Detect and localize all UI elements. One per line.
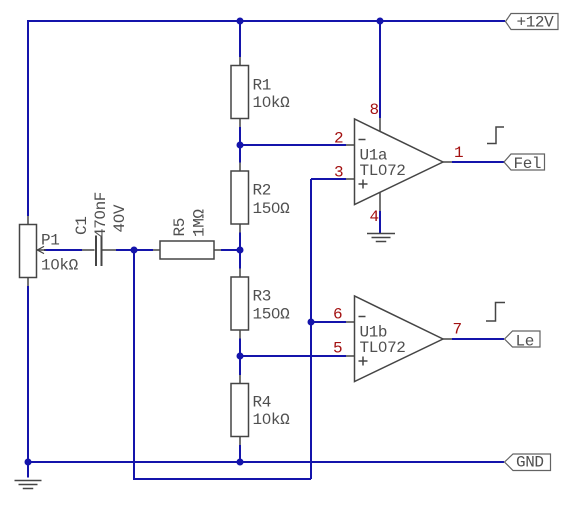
junction node VCC U1a pin8 (377, 18, 384, 25)
junction node R2 R3 R5 (237, 247, 244, 254)
pulse icon Le (486, 303, 505, 322)
wire node to R5 (134, 249, 153, 251)
wire R2 to R3 (239, 233, 241, 269)
junction node VCC R1 (237, 18, 244, 25)
resistor R1 (231, 57, 249, 127)
svg-text:10kΩ: 10kΩ (41, 257, 79, 275)
wire pin3 net vertical (310, 179, 312, 479)
svg-text:R5: R5 (171, 218, 189, 236)
svg-text:Fel: Fel (514, 155, 542, 173)
value 10kOhm R1 (253, 94, 291, 112)
resistor R5 (153, 241, 221, 259)
svg-text:P1: P1 (41, 232, 59, 250)
resistor R2 (231, 163, 249, 233)
junction node pin6 (308, 319, 315, 326)
op-amp U1a (346, 118, 452, 211)
value 40V rotated (111, 204, 129, 232)
svg-text:R2: R2 (253, 182, 271, 200)
value 150Ohm R3 (253, 306, 291, 324)
wire C1 to node (116, 249, 134, 251)
wire bottom GND rail (28, 461, 504, 463)
svg-text:2: 2 (334, 130, 343, 148)
wire U1a pin3 horizontal (311, 178, 346, 180)
pulse icon Fel (487, 127, 504, 144)
resistor R4 (231, 375, 249, 445)
svg-text:6: 6 (333, 306, 342, 324)
svg-text:R1: R1 (253, 77, 271, 95)
value 150Ohm R2 (253, 200, 291, 218)
svg-text:4: 4 (370, 208, 379, 226)
value 10kOhm P1 (41, 257, 79, 275)
svg-text:3: 3 (334, 164, 343, 182)
svg-text:1: 1 (454, 144, 463, 162)
svg-text:10kΩ: 10kΩ (253, 411, 291, 429)
wire node to U1b pin6 (311, 321, 346, 323)
svg-text:Le: Le (516, 333, 534, 351)
wire R1 to R2 (239, 127, 241, 163)
wire node R1R2 to U1a pin2 (240, 144, 346, 146)
wire U1a output to Fel tag (452, 161, 504, 163)
wire R3 to R4 (239, 339, 241, 376)
net label Fel (504, 154, 545, 173)
svg-text:5: 5 (333, 340, 342, 358)
svg-text:10kΩ: 10kΩ (253, 94, 291, 112)
resistor R3 (231, 269, 249, 339)
svg-text:C1: C1 (73, 217, 91, 235)
value 470nF rotated (92, 192, 110, 238)
wire VCC to U1a pin8 (379, 21, 381, 118)
wire P1 gnd stub (27, 462, 29, 478)
power tag +12V (506, 14, 559, 32)
svg-text:1MΩ: 1MΩ (191, 209, 209, 237)
wire bottom loop to C1 node (134, 250, 311, 479)
wire ladder top to R1 (239, 21, 241, 57)
wire U1a pin4 to ground (379, 211, 381, 234)
svg-text:R4: R4 (253, 394, 271, 412)
junction node R3 R4 pin5 (237, 353, 244, 360)
power tag GND (505, 454, 551, 472)
svg-text:150Ω: 150Ω (253, 306, 291, 324)
ground under U1a pin4 (367, 234, 395, 242)
net label Le (505, 331, 541, 351)
svg-text:GND: GND (516, 454, 544, 472)
junction node R4 GND (237, 459, 244, 466)
ground bottom left (15, 481, 42, 489)
op-amp U1b (346, 296, 452, 382)
junction node C1 R5 (131, 247, 138, 254)
wire U1b output to Le tag (452, 338, 504, 340)
wire P1 bottom to ground rail (27, 286, 29, 462)
wire R4 to GND rail (239, 445, 241, 462)
svg-text:7: 7 (453, 321, 462, 339)
svg-text:R3: R3 (253, 288, 271, 306)
wire R5 to ladder node (221, 249, 240, 251)
wire top +12V rail (28, 20, 505, 22)
value TL072 U1b (360, 339, 406, 357)
wire left rail vertical (27, 20, 29, 216)
wire node R3R4 to U1b pin5 (240, 355, 346, 357)
junction node R1 R2 pin2 (237, 142, 244, 149)
potentiometer P1 (20, 216, 47, 286)
svg-text:8: 8 (370, 101, 379, 119)
svg-text:+12V: +12V (517, 14, 555, 32)
wire P1 wiper to C1 (44, 249, 82, 251)
value TL072 U1a (360, 162, 406, 180)
value 10kOhm R4 (253, 411, 291, 429)
junction node P1 GND (25, 459, 32, 466)
svg-text:150Ω: 150Ω (253, 200, 291, 218)
capacitor C1 (82, 236, 116, 267)
